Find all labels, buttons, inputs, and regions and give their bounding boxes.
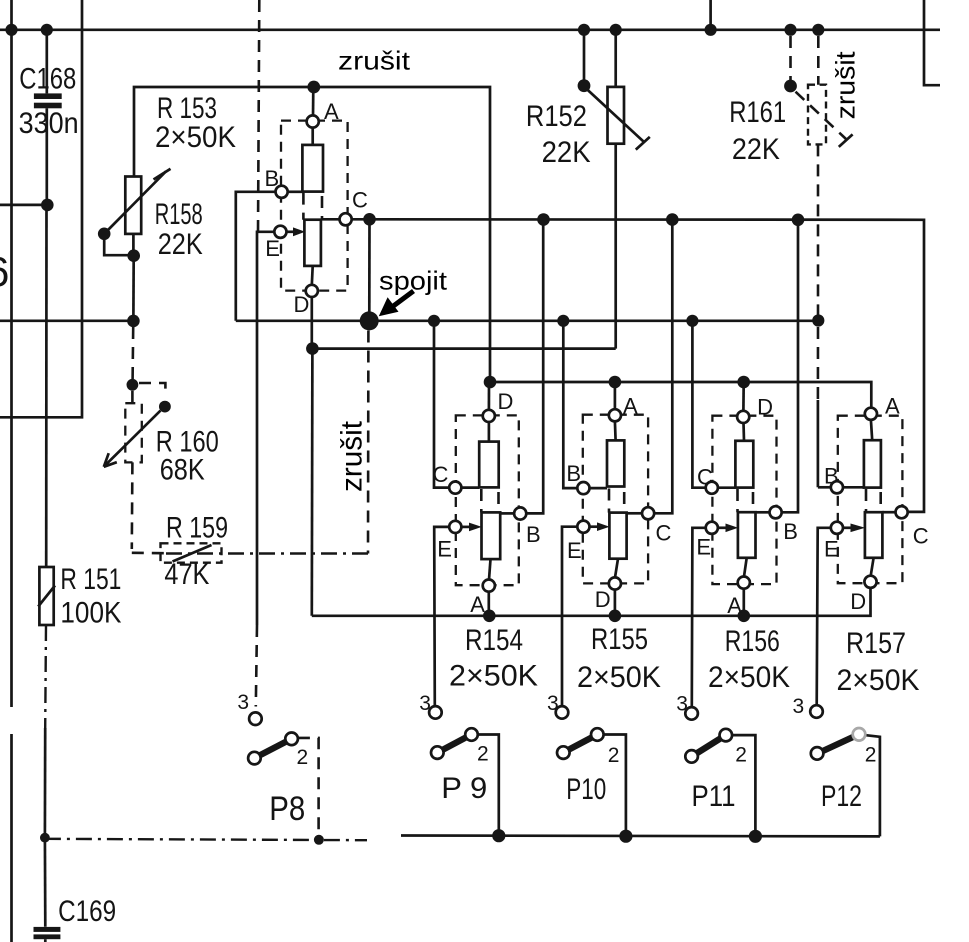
terminal circle R156.E [706, 522, 718, 534]
svg-text:P11: P11 [692, 780, 736, 813]
node junction dot (543.5,219) [537, 213, 550, 226]
svg-text:R154: R154 [465, 624, 523, 657]
wire R156.E down to P11 [692, 528, 706, 708]
pin label 3 (P10) [547, 692, 559, 715]
label R159 [166, 512, 228, 545]
svg-text:100K: 100K [60, 597, 121, 630]
svg-text:P12: P12 [821, 780, 862, 813]
wire R153.E left and down to P8 [256, 232, 277, 707]
lever circle P8 left [248, 752, 261, 765]
svg-text:A: A [324, 99, 339, 124]
wire C168 node down to R151 [45, 205, 48, 567]
label zrusit (top annotation) [338, 46, 411, 76]
svg-text:22K: 22K [158, 228, 203, 261]
pin label 2 (P11) [735, 744, 747, 767]
lever circle P8 right [285, 733, 298, 746]
node junction dot (790,30) [784, 24, 796, 36]
pin label C (R154) [433, 462, 449, 487]
wire R157.B stub [818, 486, 831, 489]
svg-text:D: D [294, 292, 310, 317]
pin label C (R155) [656, 521, 672, 546]
label R151 [60, 563, 121, 596]
wire R153.B loop to bus [236, 192, 278, 321]
svg-text:R157: R157 [846, 627, 906, 660]
label zrusit (rotated, near R161) [831, 51, 861, 120]
capacitor C168 [34, 30, 62, 205]
node dot R160 switch top (132,385) [126, 379, 138, 391]
wire R154.E down to P9 [434, 527, 450, 706]
wire main horizontal net y=219 with right corner down to R157.C [352, 219, 924, 512]
resistor R161 (dashed, marked zrusit) [791, 36, 853, 315]
label P12 [821, 780, 862, 813]
wire horizontal y=349 from R153.D to R152 [312, 347, 615, 350]
pin label D (R155) [595, 587, 611, 612]
svg-text:3: 3 [676, 693, 688, 716]
potentiometer R153 dual section [281, 87, 348, 343]
pin label D (R154) [498, 389, 514, 414]
node junction dot (11.5,30) [5, 24, 17, 36]
svg-text:R 151: R 151 [60, 563, 121, 596]
wire top-right corner [924, 0, 940, 85]
svg-text:R 159: R 159 [166, 512, 228, 545]
label 68K (R160) [160, 454, 205, 487]
label 2x50K (R157) [837, 664, 920, 697]
terminal circle P10.3 [556, 706, 569, 719]
svg-text:P 9: P 9 [441, 772, 487, 805]
resistor R159 (dashed, 47K) [161, 543, 369, 562]
lever circle P10 left [557, 746, 570, 759]
svg-text:R156: R156 [725, 625, 780, 658]
node junction dot (743.7,382) [737, 376, 750, 389]
svg-text:2×50K: 2×50K [577, 661, 661, 694]
node junction dot (755,836) [749, 830, 762, 843]
wire R154.C to bus [434, 321, 450, 488]
svg-text:P10: P10 [566, 773, 606, 806]
svg-text:2×50K: 2×50K [837, 664, 920, 697]
terminal circle R156.D [737, 411, 749, 423]
terminal circle R154.C [449, 482, 461, 494]
label P9 [441, 772, 487, 805]
pin label 2 (P8) [297, 746, 309, 769]
terminal circle R156.B [770, 506, 782, 518]
label R156 [725, 625, 780, 658]
lever circle P11 left [685, 750, 698, 763]
terminal circle R157.E [831, 522, 843, 534]
node junction dot (563,321) [557, 315, 569, 327]
node junction dot (133,321) [127, 315, 140, 328]
wire R155.C to net 219 [654, 220, 672, 514]
label R154 [465, 624, 523, 657]
node junction dot (818,320) [812, 314, 824, 326]
svg-text:D: D [595, 587, 611, 612]
svg-text:R158: R158 [155, 198, 203, 231]
svg-text:3: 3 [547, 692, 559, 715]
svg-text:E: E [696, 535, 711, 560]
wire horizontal into C168 node [0, 204, 47, 207]
svg-text:C: C [913, 524, 929, 549]
pin label B (R157) [824, 464, 839, 489]
wire dashed from bus dot down to R160 switch [131, 327, 134, 379]
svg-text:A: A [623, 394, 638, 419]
label C168 [19, 63, 76, 96]
resistor R160 (dashed trimmer, marked) [104, 403, 161, 467]
svg-text:A: A [470, 592, 485, 617]
wire R152 bottom down to corner at y=349 [614, 144, 617, 349]
node wiper dot R161 (790,86) [784, 80, 797, 93]
node junction dot (711,30) [705, 24, 717, 36]
terminal circle R154.E [449, 521, 461, 533]
label 100K [60, 597, 121, 630]
pin label 3 (P8) [237, 691, 249, 714]
node junction dot (626,836) [619, 830, 632, 843]
terminal circle R157.A [865, 408, 877, 420]
pin label C (R156) [697, 465, 713, 490]
node junction dot (47,30) [41, 24, 53, 36]
node junction dot (584,30) [578, 24, 590, 36]
svg-text:D: D [757, 395, 773, 420]
svg-text:zrušit: zrušit [338, 46, 411, 76]
switch P8 (contacts drawn open) [260, 738, 319, 836]
svg-text:E: E [437, 537, 452, 562]
wire R155.B to bus [563, 321, 577, 488]
terminal circle R153.A [307, 115, 319, 127]
svg-text:A: A [727, 593, 742, 618]
pin label A (R154) [470, 592, 485, 617]
pin label B (R156) [783, 519, 798, 544]
wire stub from top edge [709, 0, 712, 30]
potentiometer R156 [712, 382, 776, 616]
potentiometer R154 [456, 382, 519, 616]
svg-text:3: 3 [793, 695, 805, 718]
svg-text:2: 2 [865, 744, 877, 767]
svg-text:22K: 22K [732, 133, 780, 166]
svg-text:3: 3 [419, 692, 431, 715]
lever circle P12 right (faded) [853, 728, 866, 741]
wire R157.E down to P12 [817, 528, 831, 706]
node small dot (45,838) [40, 833, 50, 843]
pin label A (R155) [623, 394, 638, 419]
svg-text:2×50K: 2×50K [155, 121, 236, 154]
pin label B (R153) [265, 166, 280, 191]
svg-text:B: B [824, 464, 839, 489]
switch contact dashed (R160) [132, 383, 165, 403]
svg-text:E: E [567, 538, 582, 563]
pin label 2 (P12, faded) [865, 744, 877, 767]
terminal circle P9.3 [429, 706, 442, 719]
wire R156.B to net 219 [782, 220, 798, 513]
pin label D (R157) [850, 589, 866, 614]
wire left vertical rail [10, 0, 13, 942]
label C169 [58, 895, 116, 928]
wire bottom net of pots y=616 [312, 588, 871, 616]
node junction dot (489,616) [483, 610, 496, 623]
terminal circle R154.D [483, 410, 495, 422]
wire R151 to bottom node (dash-dot then solid) [45, 625, 46, 833]
terminal circle R153.D [306, 285, 318, 297]
svg-text:330n: 330n [19, 107, 79, 140]
switch P9 [443, 735, 499, 831]
pin label 3 (P11) [676, 693, 688, 716]
node junction dot (615,616) [609, 610, 622, 623]
node junction dot (692,321) [686, 315, 698, 327]
svg-text:E: E [265, 236, 280, 261]
pin label A (R153) [324, 99, 339, 124]
terminal circle P11.3 [685, 707, 698, 720]
wire main bus y=321 [236, 319, 819, 322]
label R155 [591, 623, 648, 656]
wire R158 down to left bus dot [132, 256, 135, 316]
lever circle P9 right [465, 728, 478, 741]
pin label 2 (P10) [608, 744, 620, 767]
pin label A (R157) [885, 394, 900, 419]
terminal circle R155.A [609, 409, 621, 421]
node junction dot (134,256) [127, 249, 140, 262]
terminal circle R157.B [831, 481, 843, 493]
pin label 3 (P12, faded) [793, 695, 805, 718]
terminal circle R154.A [483, 580, 495, 592]
label P8 [269, 790, 305, 828]
svg-text:P8: P8 [269, 790, 305, 828]
node junction dot (499,836) [492, 829, 505, 842]
svg-text:B: B [265, 166, 280, 191]
pin label C (R157) [913, 524, 929, 549]
svg-text:47K: 47K [164, 558, 209, 591]
svg-text:68K: 68K [160, 454, 205, 487]
terminal circle R156.A [738, 577, 750, 589]
label 22K (R152) [542, 136, 591, 169]
wire dashed R161 continuation down to R157.B [817, 327, 820, 487]
arrow spojit pointing to dot [379, 291, 414, 316]
svg-text:D: D [850, 589, 866, 614]
label 2x50K (R155) [577, 661, 661, 694]
svg-text:2: 2 [608, 744, 620, 767]
svg-text:C168: C168 [19, 63, 76, 96]
node junction dot (744,616) [738, 610, 751, 623]
capacitor C169 [34, 927, 61, 942]
svg-text:R161: R161 [729, 96, 786, 129]
node junction dot (672,219) [666, 213, 679, 226]
svg-text:C: C [656, 521, 672, 546]
svg-text:D: D [498, 389, 514, 414]
pin label E (R156) [696, 535, 711, 560]
svg-text:2×50K: 2×50K [708, 661, 790, 694]
terminal circle R153.C [340, 213, 352, 225]
label zrusit (rotated, mid) [336, 420, 369, 492]
node junction dot (369.5,219) [363, 213, 376, 226]
svg-text:C: C [433, 462, 449, 487]
switch P11 [697, 735, 755, 831]
wire R155.E down to P10 [562, 527, 577, 707]
svg-text:2: 2 [477, 743, 489, 766]
wire dashed removal line from top to R153.E [258, 0, 259, 232]
terminal circle R154.B [514, 507, 526, 519]
terminal circle R153.B [276, 186, 288, 198]
terminal circle R153.E [274, 226, 286, 238]
switch P12 (right contact faded) [823, 735, 880, 837]
pin label 2 (P9) [477, 743, 489, 766]
terminal circle R155.D [609, 577, 621, 589]
pin label E (R154) [437, 537, 452, 562]
lever circle P10 right [591, 728, 604, 741]
label 2x50K (R156) [708, 661, 790, 694]
label P11 [692, 780, 736, 813]
net label 6 (clipped at edge) [0, 248, 9, 295]
lever circle P12 left [811, 747, 824, 760]
wire bottom switch bus y=836 [401, 834, 880, 838]
wire node down to C169 [44, 838, 47, 927]
pin label E (R155) [567, 538, 582, 563]
wire R158 top to R153.A top rail [134, 87, 490, 382]
label 2x50K (R154) [449, 660, 538, 693]
terminal circle R156.C [706, 482, 718, 494]
terminal circle R155.B [577, 482, 589, 494]
wire second vertical rail with corner exit left [0, 0, 82, 417]
wire dashed R160 bottom to R159 [132, 462, 164, 553]
pin label B (R154) [526, 522, 541, 547]
svg-text:C: C [352, 188, 368, 213]
node small dot P8 drop (319,840) [314, 835, 324, 845]
label 330n [19, 107, 79, 140]
wire R154.B to net 219 [526, 220, 543, 514]
lever circle P11 right [720, 729, 733, 742]
resistor R151 [38, 567, 55, 625]
label R152 [526, 100, 587, 133]
svg-text:2×50K: 2×50K [449, 660, 538, 693]
label R161 [729, 96, 786, 129]
svg-text:B: B [566, 461, 581, 486]
pin label 3 (P9) [419, 692, 431, 715]
potentiometer R155 [583, 382, 648, 616]
label 2x50K (R153) [155, 121, 236, 154]
svg-text:B: B [783, 519, 798, 544]
node junction dot (490,382) [484, 376, 497, 389]
wire R153.D down to bottom bus [310, 349, 313, 616]
wire R153.C node down to spojit dot [368, 219, 371, 315]
node junction dot (434,321) [428, 315, 440, 327]
node junction dot (47,205) [41, 199, 54, 212]
resistor R152 (rheostat) [584, 30, 650, 150]
svg-text:2: 2 [735, 744, 747, 767]
pin label B (R155) [566, 461, 581, 486]
terminal circle P12.3 [810, 705, 823, 718]
pin label D (R156) [757, 395, 773, 420]
node junction dot (818,30) [812, 24, 824, 36]
pin label C (R153) [352, 188, 368, 213]
node dot R160 switch lever (165,406.6) [159, 401, 171, 413]
node junction dot (615,382) [609, 376, 622, 389]
resistor R158 (rheostat) [104, 169, 170, 256]
wire dashed removal line big dot to R159 level [367, 331, 370, 554]
wire left bus segment y=321 [0, 319, 139, 322]
svg-text:R152: R152 [526, 100, 587, 133]
terminal circle R157.C [896, 506, 908, 518]
node spojit big dot (369,321) [360, 311, 379, 330]
label 47K (R159) [164, 558, 209, 591]
label 22K (R161) [732, 133, 780, 166]
svg-text:E: E [824, 537, 839, 562]
svg-text:A: A [885, 394, 900, 419]
wire R156.C to bus [692, 321, 705, 488]
terminal circle P8.3 [249, 712, 262, 725]
label P10 [566, 773, 606, 806]
svg-text:zrušit: zrušit [336, 420, 369, 492]
pin label A (R156) [727, 593, 742, 618]
label R157 [846, 627, 906, 660]
pin label E (R157) [824, 537, 839, 562]
svg-text:C: C [697, 465, 713, 490]
label 22K (R158) [158, 228, 203, 261]
wire top net of pots y=382 [490, 382, 871, 408]
label spojit [379, 266, 448, 296]
node wiper dot R158 (104,234) [98, 228, 111, 241]
svg-text:B: B [526, 522, 541, 547]
wire top supply bus [0, 28, 940, 31]
switch P10 [569, 735, 626, 831]
lever circle P9 left [431, 746, 444, 759]
terminal circle R155.C [642, 507, 654, 519]
terminal circle R155.E [577, 521, 589, 533]
svg-text:zrušit: zrušit [831, 51, 861, 120]
terminal circle R157.D [864, 576, 876, 588]
svg-text:2: 2 [297, 746, 309, 769]
potentiometer R157 [838, 416, 903, 584]
node junction dot (616,30) [610, 24, 622, 36]
svg-text:3: 3 [237, 691, 249, 714]
pin label D (R153) [294, 292, 310, 317]
label R160 [156, 426, 219, 459]
node junction dot (312,349) [306, 342, 319, 355]
wire bottom-left dash-dot line to P8 [45, 839, 367, 840]
label R153 [157, 92, 217, 125]
svg-text:C169: C169 [58, 895, 116, 928]
svg-text:R155: R155 [591, 623, 648, 656]
svg-text:22K: 22K [542, 136, 591, 169]
label R158 [155, 198, 203, 231]
svg-text:6: 6 [0, 248, 9, 295]
pin label E (R153) [265, 236, 280, 261]
node junction dot (314,87) [307, 81, 320, 94]
node wiper dot R152 (584,86) [578, 79, 591, 92]
node junction dot (798,220) [792, 214, 805, 227]
